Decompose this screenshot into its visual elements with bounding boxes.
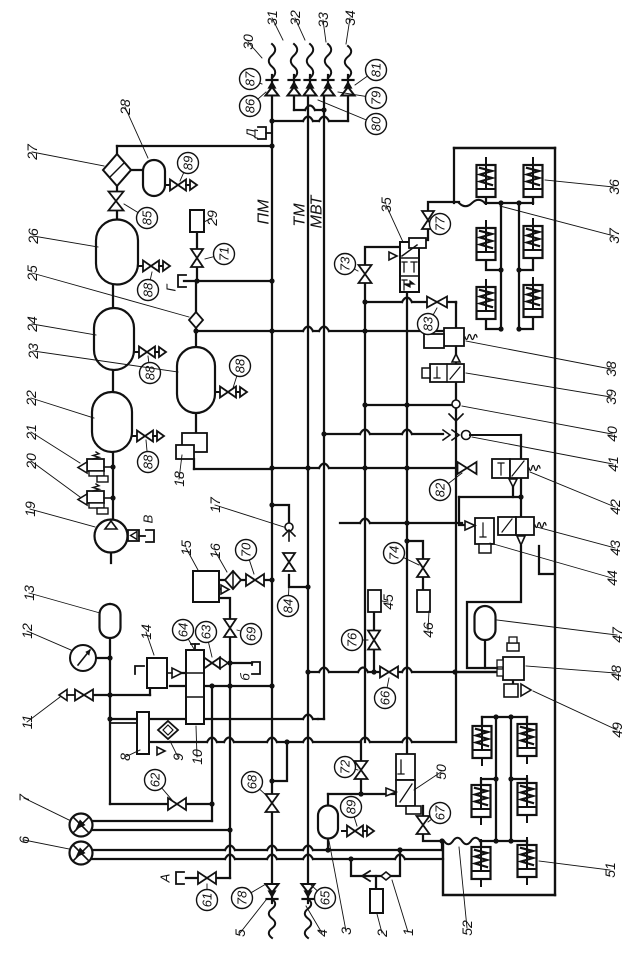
valve 63 (204, 658, 228, 669)
wire valve67 line (423, 806, 445, 844)
label circled 71 (205, 244, 235, 265)
brake chamber 51 group pos3 (518, 776, 537, 822)
wire top chambers verticals (501, 203, 519, 329)
regulator 21 (78, 452, 113, 482)
svg-text:52: 52 (459, 920, 475, 936)
brake chamber 36 group pos3 (524, 219, 543, 265)
hose 31 (291, 44, 297, 78)
label circled 79 (338, 88, 387, 109)
svg-text:87: 87 (243, 71, 258, 86)
item 46 sensor (417, 590, 430, 612)
drain valve 88d (215, 387, 247, 398)
hose item5 (269, 899, 275, 938)
label circled 78 (232, 884, 267, 909)
brake chamber 51 group pos4 (472, 840, 491, 886)
drain valve 89b (342, 826, 374, 837)
label 18 (171, 455, 187, 487)
item 2 fuse (370, 889, 383, 913)
port A bracket (158, 872, 185, 884)
svg-text:64: 64 (176, 623, 191, 637)
wire bus y851 (92, 841, 442, 853)
check valve 81 (line 34) (342, 75, 355, 96)
wire PM bus vertical (271, 95, 273, 884)
svg-text:Г: Г (164, 284, 179, 292)
item 50 valve block (386, 754, 421, 814)
svg-text:40: 40 (604, 426, 620, 442)
wire capsule28 link (129, 169, 143, 171)
wire valve72 branch (360, 742, 362, 794)
label 26 (25, 228, 98, 247)
node 41 coupling (443, 430, 521, 440)
label circled 70 (236, 540, 257, 575)
svg-text:1: 1 (400, 928, 416, 936)
wire x110 vertical (107, 638, 112, 804)
wire item18 down (194, 459, 272, 469)
label 17 (207, 496, 284, 527)
drain valve 88c (132, 431, 164, 442)
label 5 (232, 900, 266, 937)
brake chamber 51 group pos1 (518, 717, 537, 763)
wire hose 37 (459, 200, 485, 206)
drain valve 88b (134, 347, 166, 358)
gauge 12 (70, 645, 96, 671)
brake chamber 36 group pos0 (477, 158, 496, 204)
svg-text:45: 45 (380, 594, 396, 610)
label 7 (16, 793, 69, 820)
label 37 (500, 206, 622, 244)
hose 30 (269, 44, 275, 78)
svg-text:46: 46 (420, 622, 436, 638)
wire feed line y146 (117, 145, 272, 147)
svg-text:33: 33 (315, 12, 331, 28)
svg-text:36: 36 (606, 179, 622, 195)
wire line y742 (149, 738, 456, 745)
tank 23 middle (177, 347, 215, 413)
wire item15 right link (219, 580, 225, 589)
wire condenser-85-tank26 (116, 185, 118, 220)
box trailer outline right (554, 148, 556, 895)
wire tank chain (110, 285, 115, 519)
wire PM stub x287 (269, 742, 287, 784)
item 35 valve block (389, 238, 426, 292)
label 23 (25, 343, 178, 372)
svg-text:89: 89 (181, 156, 196, 170)
wire item29 chain (196, 232, 198, 281)
wire line y523 (340, 519, 462, 526)
svg-text:9: 9 (170, 753, 186, 761)
wire capsule13 line (109, 604, 111, 638)
label 11 (19, 697, 60, 729)
check valve 86 (line 30) (266, 75, 279, 96)
svg-text:70: 70 (239, 542, 254, 557)
wire bus x365 vertical (364, 284, 366, 742)
svg-text:77: 77 (433, 216, 448, 231)
label 10 (189, 726, 205, 765)
svg-text:42: 42 (607, 499, 623, 515)
item 8 box (110, 712, 165, 755)
label circled 87 (240, 69, 263, 90)
label 27 (24, 143, 104, 166)
label 33 (315, 12, 331, 42)
condenser 27 diamond (103, 154, 131, 186)
wire MVT bus vertical (323, 96, 325, 719)
valve 84 (283, 553, 295, 571)
label 41 (472, 437, 621, 472)
item 45 sensor (368, 590, 381, 612)
brake chamber 36 group pos1 (524, 158, 543, 204)
lamp 6 (70, 842, 93, 865)
svg-text:18: 18 (171, 471, 187, 487)
wire line y433 (321, 430, 443, 437)
label 31 (264, 10, 283, 40)
wire line y302 (362, 298, 456, 305)
svg-text:7: 7 (16, 793, 32, 802)
label circled 88 (138, 272, 159, 301)
label 45 (380, 594, 396, 610)
item 48 unit (497, 637, 524, 680)
label circled 64 (173, 620, 195, 650)
regulator 20 (78, 484, 113, 514)
item 49 valve (504, 684, 531, 697)
label 47 (497, 620, 625, 643)
svg-text:ПМ: ПМ (256, 199, 273, 225)
brake chamber 36 group pos4 (477, 280, 496, 326)
label 19 (22, 501, 95, 527)
wire TM bus vertical (307, 96, 309, 884)
wire condenser drop (116, 146, 118, 154)
wire lamp7 wire b (92, 829, 230, 831)
svg-text:26: 26 (25, 228, 41, 245)
valve 76 (368, 631, 380, 650)
svg-text:13: 13 (21, 585, 37, 601)
label 2 (374, 914, 390, 938)
svg-text:84: 84 (281, 599, 296, 613)
label 38 (466, 341, 619, 377)
wire line y580 (264, 577, 275, 582)
valve 72 (355, 761, 368, 779)
label MVT (309, 194, 326, 228)
wire check17 branch (269, 502, 289, 522)
svg-text:65: 65 (318, 890, 333, 905)
label 8 (117, 750, 140, 761)
valve 62 (168, 798, 186, 810)
check valve 79/80 (line 33) (322, 75, 335, 96)
label 50 (414, 764, 449, 790)
wire lamp7 wire a (92, 820, 212, 822)
wire item45-76 branch (373, 612, 375, 672)
wire item48-49 link (512, 680, 514, 684)
wire item43 spring down (539, 546, 554, 574)
svg-text:43: 43 (607, 540, 623, 556)
wire bottom chambers row2 (481, 776, 527, 784)
svg-text:6: 6 (16, 836, 32, 844)
label circled 73 (335, 254, 359, 275)
label 3 (329, 841, 354, 935)
drain valve 88a (138, 261, 170, 272)
label 30 (240, 34, 262, 58)
check valve 87 (line 31) (288, 75, 301, 96)
svg-text:37: 37 (606, 227, 622, 244)
label 36 (545, 179, 622, 195)
svg-text:72: 72 (338, 759, 353, 774)
label 6 (16, 836, 69, 849)
port G bracket (164, 275, 187, 292)
svg-text:88: 88 (233, 358, 248, 373)
wire chamber feed top (454, 148, 533, 203)
svg-text:2: 2 (374, 929, 390, 938)
svg-text:5: 5 (232, 929, 248, 937)
label circled 61 (197, 884, 218, 911)
wire item50 top (406, 742, 408, 754)
wire valve62 line (110, 803, 212, 805)
port V bracket (141, 514, 156, 542)
wire bus y860 (92, 855, 443, 862)
label circled 62 (145, 770, 173, 801)
wire line y331 (193, 327, 458, 334)
tank 24 (94, 308, 134, 370)
item 14 box (135, 658, 182, 688)
svg-text:35: 35 (378, 197, 394, 213)
valve 82 (458, 462, 477, 474)
wire port A line (186, 877, 230, 879)
svg-text:48: 48 (608, 665, 624, 681)
svg-text:29: 29 (204, 210, 220, 227)
wire top chambers row2 (486, 258, 533, 273)
wire bottom chambers top row (482, 714, 527, 725)
label 52 (459, 847, 475, 936)
wire x212 vertical (209, 686, 214, 821)
svg-text:31: 31 (264, 10, 280, 26)
wire diamond25 chain (195, 281, 197, 347)
wire valve63 line (204, 660, 252, 665)
svg-text:14: 14 (138, 624, 154, 640)
capsule 28 (143, 160, 165, 196)
hose 33 (325, 44, 331, 78)
svg-text:17: 17 (207, 496, 223, 513)
label circled 84 (278, 585, 299, 617)
item 42 valve (492, 459, 540, 487)
hose 34 (345, 46, 351, 78)
label circled 66 (375, 678, 396, 709)
label circled 82 (430, 473, 463, 501)
svg-text:82: 82 (433, 482, 448, 497)
svg-text:76: 76 (345, 632, 360, 647)
wire item16-70 link (241, 579, 246, 581)
wire bottom chambers verticals (496, 717, 511, 841)
item 39 valve (422, 346, 464, 382)
hose item4 (305, 899, 311, 938)
valve 65 (302, 884, 315, 903)
valve 68 (266, 794, 279, 812)
valve 78 (266, 884, 279, 903)
label circled 72 (335, 757, 359, 778)
label circled 86 (240, 92, 267, 117)
label circled 88 (230, 356, 251, 389)
wire item42 out (512, 487, 514, 497)
label circled 65 (310, 884, 336, 909)
label PM (256, 199, 273, 225)
svg-text:79: 79 (369, 91, 384, 105)
wire item44 pilot link (459, 497, 464, 525)
wire x521 vertical (518, 435, 523, 517)
drain valve 89a (165, 180, 197, 191)
diamond node 25 (189, 312, 203, 328)
label circled 83 (418, 308, 439, 335)
svg-text:62: 62 (148, 772, 163, 787)
label circled 63 (196, 622, 217, 658)
wire item43 down (467, 546, 521, 668)
svg-text:20: 20 (23, 453, 39, 470)
label circled 77 (430, 214, 451, 235)
svg-text:19: 19 (22, 501, 38, 517)
label 16 (207, 543, 227, 572)
label 1 (392, 880, 416, 936)
wire capsule3 stub (325, 794, 330, 853)
item 1 towing valve (362, 871, 391, 881)
box top edge (454, 147, 555, 149)
capsule 13 (100, 604, 121, 638)
svg-text:15: 15 (178, 540, 194, 556)
brake chamber 51 group pos2 (472, 778, 491, 824)
svg-text:49: 49 (609, 722, 625, 738)
svg-text:38: 38 (603, 361, 619, 377)
svg-text:68: 68 (245, 774, 260, 789)
wire x229 vertical (227, 637, 232, 878)
wire item2 stub (375, 876, 377, 889)
wire y794 line (328, 791, 396, 796)
valve 67 (417, 816, 430, 834)
lamp 7 (70, 814, 93, 837)
label circled 74 (384, 543, 420, 566)
label 20 (23, 453, 80, 497)
svg-text:б: б (238, 673, 253, 681)
svg-text:32: 32 (287, 10, 303, 26)
wire bus x456 vertical (455, 303, 457, 742)
valve 61 (198, 872, 216, 884)
svg-text:66: 66 (378, 690, 393, 705)
svg-text:73: 73 (338, 256, 353, 271)
label 43 (537, 527, 623, 556)
svg-text:88: 88 (141, 282, 156, 297)
valve 77 (422, 211, 434, 229)
label 14 (138, 624, 154, 655)
svg-text:39: 39 (603, 389, 619, 405)
wire top chambers col (486, 197, 533, 206)
svg-text:80: 80 (369, 116, 384, 131)
wire valve84 to TM (289, 575, 311, 590)
wire valve74 branch (404, 538, 423, 558)
valve 71 (191, 249, 203, 267)
label circled 68 (242, 772, 269, 798)
label circled 67 (428, 803, 451, 824)
svg-text:51: 51 (602, 862, 618, 878)
wire chamber feed bottom (480, 840, 527, 842)
wire check-valve 5 link (272, 96, 348, 121)
svg-text:74: 74 (387, 546, 402, 560)
item 38 regulator (424, 328, 477, 348)
label 12 (19, 623, 71, 650)
box bottom outline (443, 842, 555, 895)
wire valve73 top link (365, 247, 400, 265)
valve 73 (359, 265, 372, 283)
svg-text:23: 23 (25, 343, 41, 360)
svg-text:ТМ: ТМ (292, 203, 309, 227)
label 15 (178, 540, 198, 570)
svg-text:69: 69 (244, 627, 259, 641)
svg-text:78: 78 (235, 890, 250, 905)
label 24 (24, 316, 96, 335)
label 22 (23, 390, 94, 418)
valve 83 (427, 297, 447, 308)
svg-text:8: 8 (117, 753, 133, 761)
svg-text:86: 86 (243, 98, 258, 113)
label 46 (420, 611, 436, 638)
svg-text:МВТ: МВТ (309, 194, 326, 228)
check valve 17 (283, 523, 295, 541)
wire line y497 (459, 496, 521, 498)
label 39 (466, 373, 619, 405)
item 29 fuse (190, 210, 204, 232)
svg-text:61: 61 (200, 893, 215, 907)
svg-text:11: 11 (19, 715, 35, 730)
valve 74 (417, 559, 429, 577)
svg-text:34: 34 (342, 10, 358, 26)
svg-text:89: 89 (344, 800, 359, 814)
wire item46 link (422, 577, 424, 590)
svg-text:67: 67 (433, 805, 448, 820)
drain valve 11 (59, 690, 93, 701)
wire line y695 (94, 688, 150, 695)
svg-text:10: 10 (189, 749, 205, 765)
label 34 (342, 10, 358, 44)
wire bottom chambers row3 (481, 838, 527, 846)
label 51 (539, 861, 618, 878)
valve 69 (224, 619, 236, 637)
svg-text:22: 22 (23, 390, 39, 407)
svg-text:В: В (141, 514, 156, 523)
svg-text:83: 83 (421, 316, 436, 331)
capsule 47 (475, 606, 496, 640)
label 35 (378, 197, 403, 242)
label 13 (21, 585, 100, 613)
brake chamber 36 group pos2 (477, 221, 496, 267)
wire line y719 MVT branch (110, 715, 324, 720)
svg-text:81: 81 (369, 63, 384, 77)
svg-text:44: 44 (604, 570, 620, 586)
label TM (292, 203, 309, 227)
wire line y405 (362, 402, 455, 407)
svg-text:3: 3 (338, 927, 354, 935)
node PM top junction (269, 118, 274, 148)
item 44 valve (465, 518, 494, 553)
tank 22 (92, 392, 132, 452)
wire line y468 (269, 464, 458, 471)
valve 66 (380, 667, 398, 678)
hose 32 (307, 44, 313, 78)
svg-text:41: 41 (605, 456, 621, 472)
capsule 3 (318, 806, 338, 839)
label 40 (462, 406, 620, 442)
label circled 89 (178, 153, 199, 182)
wire hose 52 (444, 838, 480, 844)
label 4 (306, 906, 330, 937)
item 18 twin box (176, 433, 207, 459)
wire bus x407 vertical (406, 292, 408, 742)
svg-text:21: 21 (23, 424, 39, 441)
wire valve77 line (426, 202, 459, 240)
item 15 box (193, 571, 219, 602)
wire valve83 drop (455, 302, 457, 303)
